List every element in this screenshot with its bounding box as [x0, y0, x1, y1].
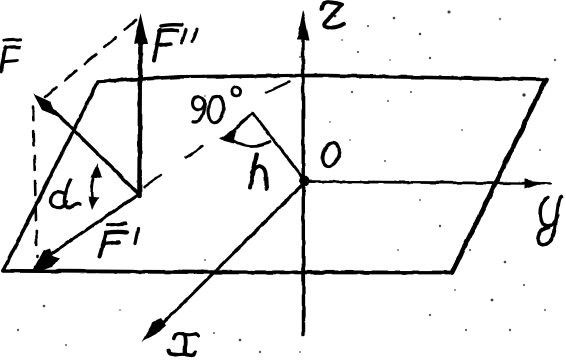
label F'' bar: [161, 25, 182, 26]
label O: [320, 140, 343, 168]
label x: [174, 333, 198, 338]
solid part of line of action near foot: [226, 113, 253, 137]
90-arc arrowhead: [219, 130, 236, 143]
label 90deg: degree circle: [231, 87, 240, 96]
plane: top edge: [98, 75, 546, 81]
vector F' shaft: [48, 194, 139, 256]
dashed line of action of F': [144, 175, 161, 187]
alpha arc arrowhead top: [91, 163, 102, 178]
label F' glyph: [100, 233, 107, 257]
label 90deg: digit 0: [207, 95, 225, 123]
y-axis tip tick: [543, 182, 551, 185]
perpendicular h segment: [253, 113, 305, 181]
label alpha: [51, 192, 66, 208]
z-axis line: [301, 30, 305, 335]
vector F'' arrowhead: [134, 13, 148, 44]
z-axis arrowhead: [297, 10, 310, 40]
y-axis arrowhead: [525, 178, 543, 188]
dashed construction: F tip down to F' tip: [33, 106, 37, 257]
label F glyph (top-left): [1, 48, 6, 72]
label h: [250, 155, 257, 188]
origin node O: [300, 176, 310, 186]
y-axis line: [305, 182, 544, 184]
alpha angle arc: [92, 169, 97, 204]
plane: left edge: [3, 82, 98, 271]
vector F'' shaft (thick): [140, 36, 141, 196]
dashed construction: F tip to F'' tip: [45, 19, 138, 97]
x-axis line: [152, 182, 305, 334]
x-axis arrowhead: [142, 319, 167, 343]
label y: [540, 198, 558, 226]
plane: bottom edge: [3, 271, 452, 273]
label 90deg: digit 9: [193, 97, 205, 110]
label F'' glyph: [154, 30, 160, 60]
label F' prime: [135, 229, 138, 244]
label F'' primes: [182, 30, 187, 43]
vector F' arrowhead: [33, 249, 60, 271]
vector F shaft: [48, 105, 139, 194]
alpha arc arrowhead bottom: [88, 196, 99, 210]
label z: [322, 2, 344, 27]
label F' bar: [108, 224, 126, 226]
90 degree angle arc: [229, 136, 270, 146]
plane: right edge: [452, 80, 546, 273]
label F bar (top-left): [4, 39, 20, 40]
vector F arrowhead: [34, 94, 58, 116]
